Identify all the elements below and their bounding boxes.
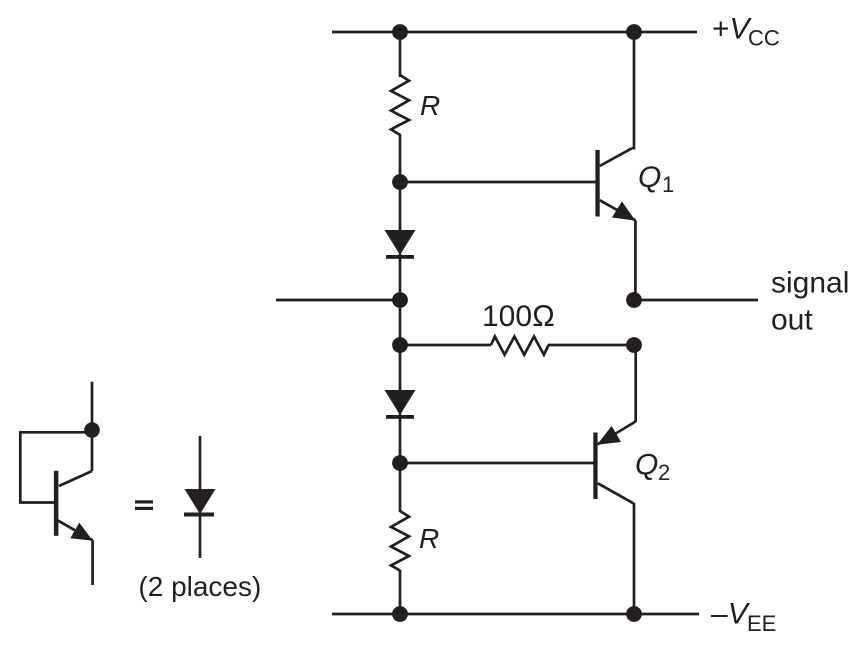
wire 100 ohm right lead — [548, 344, 634, 347]
svg-text:+V: +V — [712, 13, 753, 46]
svg-text:Q: Q — [638, 161, 661, 194]
node signal out — [626, 292, 642, 308]
node bottom-right — [626, 606, 642, 622]
transistor Q1 collector lead — [600, 148, 632, 166]
wire legend diode bottom — [199, 514, 202, 558]
svg-text:out: out — [771, 304, 813, 337]
diode D3 legend triangle — [185, 489, 216, 514]
resistor R1 (upper) — [391, 75, 409, 135]
transistor Q2 emitter arrowhead — [597, 426, 621, 445]
wire bottom -Vee rail — [332, 613, 699, 616]
wire legend base feedback loop — [20, 432, 92, 502]
svg-text:100Ω: 100Ω — [482, 300, 555, 333]
svg-text:R: R — [420, 90, 440, 121]
resistor R2 (lower) — [391, 511, 409, 571]
wire Q1 emitter to signal node — [634, 220, 637, 300]
svg-text:EE: EE — [747, 611, 776, 636]
wire mid-left stub — [276, 299, 400, 302]
svg-text:(2 places): (2 places) — [138, 571, 261, 602]
wire through diode D1 to diode D2 — [399, 254, 402, 392]
wire Q2 collector to bottom rail — [633, 503, 634, 614]
wire legend emitter bottom — [91, 540, 94, 585]
node mid-left — [392, 292, 408, 308]
equals sign — [135, 500, 153, 503]
wire legend collector top — [91, 382, 94, 471]
diode D2 triangle — [385, 390, 416, 415]
svg-text:1: 1 — [662, 172, 674, 197]
node top-left — [392, 24, 408, 40]
wire Q1 base — [400, 181, 596, 184]
transistor legend emitter lead — [58, 520, 93, 540]
transistor Q1 emitter lead — [600, 200, 636, 220]
diode D3 legend cathode wire top — [199, 436, 202, 490]
transistor Q1 base bar — [595, 150, 599, 217]
transistor legend emitter arrowhead — [70, 523, 93, 541]
wire left rail top segment — [399, 32, 402, 77]
transistor Q2 base bar — [593, 433, 597, 500]
wire top +Vcc rail — [332, 31, 697, 34]
wire resistor R1 to diode D1 — [399, 134, 402, 232]
wire 100 ohm left lead — [400, 344, 491, 347]
diode D1 cathode bar — [386, 255, 414, 259]
wire Q2 base — [400, 462, 594, 465]
node top-right — [626, 24, 642, 40]
transistor Q2 collector lead — [598, 483, 633, 503]
wire Q2 emitter to 100 ohm node — [634, 345, 636, 423]
transistor legend collector lead — [59, 471, 92, 486]
diode D1 triangle — [385, 230, 416, 255]
svg-text:–V: –V — [711, 597, 751, 630]
svg-text:CC: CC — [748, 26, 780, 51]
node bottom-left — [392, 606, 408, 622]
transistor legend base bar — [54, 471, 59, 536]
wire signal out — [634, 299, 758, 302]
node legend collector — [84, 422, 100, 438]
wire through diode D2 to resistor R2 — [399, 413, 402, 512]
svg-text:2: 2 — [658, 460, 670, 485]
node 100 ohm left — [392, 337, 408, 353]
node Q2 base — [392, 455, 408, 471]
node Q1 base — [392, 174, 408, 190]
wire Q1 collector to top rail — [632, 32, 634, 148]
node 100 ohm right — [626, 337, 642, 353]
svg-text:R: R — [419, 523, 439, 554]
transistor Q2 emitter lead — [598, 423, 635, 445]
svg-text:Q: Q — [635, 449, 658, 482]
diode D3 legend cathode bar — [184, 513, 214, 517]
diode D2 cathode bar — [386, 415, 414, 419]
resistor R3 100 ohm — [491, 337, 549, 355]
wire resistor R2 to bottom rail — [399, 570, 402, 614]
transistor Q1 emitter arrowhead — [612, 201, 636, 220]
svg-text:signal: signal — [771, 267, 849, 300]
